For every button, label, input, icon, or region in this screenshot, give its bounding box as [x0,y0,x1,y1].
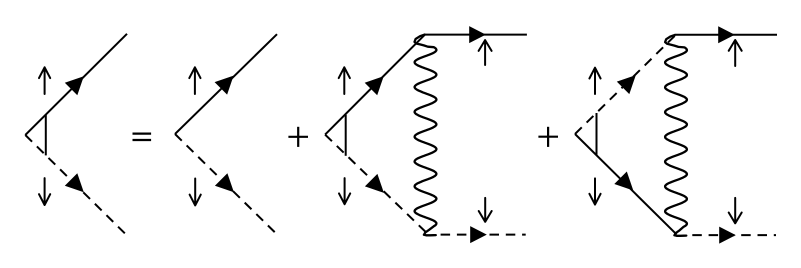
D3 vertex triangle bar [345,115,347,156]
D2 spin-down fermion line (dashed) [175,134,278,235]
D3 bottom spin-down label arrow [479,198,492,222]
D1 vertex triangle bar [45,115,47,156]
D1 spin-down label arrow [39,178,50,205]
D1 arrowhead on dashed line [65,173,84,192]
D4 spin-down internal line (solid) [575,134,677,234]
D3 left spin-up label arrow [339,67,350,94]
D3 arrowhead on dashed internal line [365,174,384,193]
D3 arrowhead on bottom external line [470,226,487,243]
D4 arrowhead on dashed internal line [617,75,636,94]
D3 arrowhead on top external line [469,26,486,43]
D2 spin-up fermion line (solid) [175,34,277,134]
D1 arrowhead on solid line [65,76,84,95]
D4 top spin-up label arrow [729,40,742,66]
D3 bottom external spin-down line (dashed) [434,234,526,236]
plus sign 1 vertical bar [297,127,299,147]
D2 arrowhead on solid line [215,76,234,95]
D4 spin-up internal line (dashed) [575,35,675,134]
D4 bottom spin-down label arrow [729,198,742,223]
D3 arrowhead on solid internal line [365,76,384,95]
D3 top spin-up label arrow [479,40,492,65]
D4 arrowhead on top external line [718,26,735,43]
equals sign top bar [133,133,152,135]
D4 vertex triangle bar [596,113,598,156]
D3 spin-up internal line (solid) [325,35,425,135]
D1 spin-up fermion line (solid, 45 deg) [25,34,127,135]
D3 top external spin-up line (solid) [425,34,527,36]
D1 spin-up label arrow [39,67,50,94]
D2 arrowhead on dashed line [215,173,234,192]
D2 spin-up label arrow [189,67,200,94]
D4 arrowhead on bottom external line [719,227,736,244]
D4 arrowhead on solid internal line [614,172,633,191]
D4 top external spin-up line (solid) [676,34,777,36]
D4 bottom external spin-down line (dashed) [686,234,777,236]
equals sign bottom bar [133,139,152,141]
D3 spin-down internal line (dashed) [325,135,427,234]
D4 interaction wavy line [665,35,687,236]
D3 interaction wavy line [415,35,437,236]
plus sign 2 horizontal bar [538,136,558,138]
D4 left spin-up label arrow [589,68,600,94]
plus sign 2 vertical bar [547,127,549,147]
D1 spin-down fermion line (dashed) [25,135,126,235]
D4 left spin-down label arrow [589,178,600,204]
plus sign 1 horizontal bar [288,136,308,138]
D3 left spin-down label arrow [339,178,350,204]
D2 spin-down label arrow [190,179,201,206]
